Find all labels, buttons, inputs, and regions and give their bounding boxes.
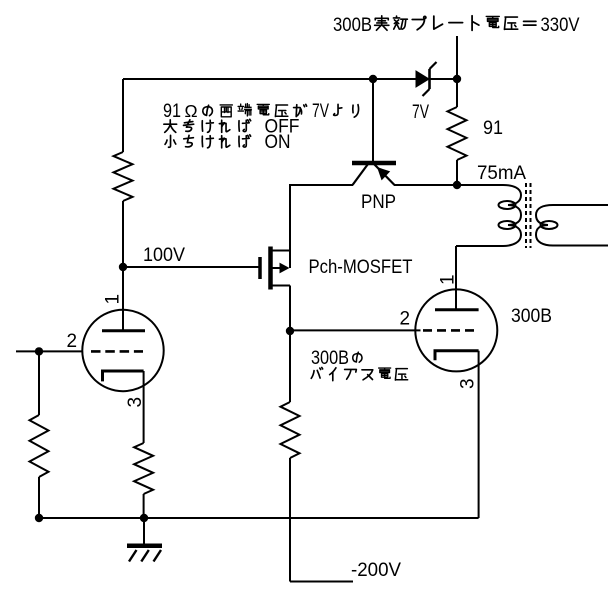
svg-text:2: 2	[400, 309, 411, 330]
wire secondary top lead	[553, 204, 608, 206]
transformer T1 output	[499, 183, 558, 248]
wire 300B cathode down to ground bus	[478, 351, 480, 518]
svg-text:100V: 100V	[143, 245, 185, 266]
junction node PNP base / top bus	[369, 75, 377, 83]
wire grid 300B from grid node	[290, 329, 421, 331]
wire top bus from left branch to zener anode	[123, 78, 416, 80]
svg-text:300B: 300B	[333, 15, 372, 36]
node 100V junction	[119, 263, 127, 271]
wire transformer primary bottom to 300B plate	[456, 246, 503, 310]
svg-text:1: 1	[438, 274, 459, 285]
junction node emitter / R91 bottom / transformer	[453, 181, 461, 189]
resistor bias feed	[281, 402, 300, 458]
transistor PNP	[352, 79, 396, 185]
wire from 330V annotation down to zener cathode node	[456, 36, 458, 79]
svg-text:-200V: -200V	[351, 560, 401, 581]
svg-text:ON: ON	[265, 132, 291, 153]
svg-text:91: 91	[163, 101, 181, 122]
resistor 91	[448, 107, 467, 160]
note text 91 ohm comparison OFF/ON	[163, 101, 359, 153]
zener diode 7V	[416, 62, 457, 96]
svg-text:PNP: PNP	[361, 192, 396, 213]
wire zener node to resistor 91	[456, 79, 458, 107]
wire grid input left tube	[16, 350, 83, 352]
svg-text:2: 2	[67, 331, 78, 352]
wire grid node down to bias resistor	[289, 331, 291, 402]
wire grid resistor to ground bus	[38, 477, 40, 518]
wire bias resistor to -200V rail	[290, 458, 353, 582]
wire PNP left leg to MOSFET source	[290, 184, 353, 268]
wire emitter node to transformer primary	[457, 184, 503, 186]
wire ground bus	[39, 517, 479, 519]
svg-text:1: 1	[103, 294, 124, 305]
svg-text:Pch-MOSFET: Pch-MOSFET	[309, 257, 413, 278]
wire secondary bottom lead	[553, 245, 608, 247]
svg-text:300B: 300B	[311, 348, 349, 369]
tube 300B	[415, 246, 497, 371]
mosfet Pch U1	[232, 247, 290, 290]
svg-text:3: 3	[458, 378, 479, 389]
tube V1 triode left	[82, 267, 163, 391]
wire cathode resistor to ground bus	[143, 494, 145, 518]
wire left branch vertical to 100V node and tube plate	[122, 201, 124, 330]
wire left tube cathode down	[143, 371, 145, 443]
wire 100V node to MOSFET gate	[123, 266, 258, 268]
junction node ground bus / ground symbol	[140, 514, 148, 522]
svg-text:300B: 300B	[511, 306, 552, 327]
resistor left plate load	[114, 152, 133, 201]
ground symbol	[127, 518, 162, 562]
junction node grid input / grid resistor	[35, 347, 43, 355]
wire resistor 91 to emitter node	[456, 160, 458, 185]
wire left branch vertical upper	[122, 79, 124, 152]
resistor grid leak left	[30, 415, 49, 477]
svg-text:7V: 7V	[412, 102, 429, 123]
svg-text:7V: 7V	[312, 101, 329, 122]
label plate voltage annotation 300B jikko plate denatsu = 330V	[333, 15, 580, 36]
junction node ground bus left end	[35, 514, 43, 522]
svg-text:330V: 330V	[541, 15, 580, 36]
svg-text:91: 91	[483, 118, 503, 139]
wire grid node down to grid resistor	[38, 351, 40, 415]
wire PNP right leg to emitter node	[394, 184, 457, 186]
junction node 300B grid / bias divider	[286, 327, 294, 335]
note text 300B no bias denatsu	[311, 348, 408, 381]
wire MOSFET drain down to grid node	[289, 286, 291, 332]
junction node zener cathode / R91 top	[453, 75, 461, 83]
svg-text:Ω: Ω	[184, 101, 197, 121]
svg-text:75mA: 75mA	[477, 163, 526, 184]
resistor cathode left	[134, 443, 153, 494]
